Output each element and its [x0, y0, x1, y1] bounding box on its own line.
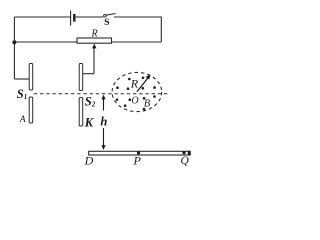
switch S	[104, 14, 116, 18]
field dot 10	[153, 95, 156, 98]
svg-text:D: D	[84, 153, 94, 167]
wire left vertical	[13, 17, 15, 79]
rheostat R box	[77, 38, 112, 43]
field dot 5	[142, 87, 145, 90]
svg-text:Q: Q	[180, 155, 189, 167]
field dot 2	[142, 77, 145, 80]
svg-text:A: A	[19, 115, 26, 125]
plate upper right	[79, 64, 83, 91]
plate lower left A	[29, 97, 33, 123]
field region dashed circle	[112, 72, 162, 111]
screen bar	[89, 151, 191, 155]
svg-text:R: R	[130, 77, 139, 91]
plate upper left	[29, 64, 33, 91]
field dot 6	[153, 86, 156, 89]
point P dot	[137, 151, 140, 154]
distance h arrow lower	[101, 128, 105, 150]
distance h arrow upper	[101, 95, 105, 111]
svg-text:O: O	[131, 96, 138, 107]
field dot 8	[129, 98, 132, 101]
field dot 12	[143, 108, 146, 111]
wire switch to top right corner and down	[114, 17, 161, 42]
wire wiper to plate	[81, 73, 94, 75]
rheostat wiper arrow	[92, 44, 96, 74]
svg-text:S2: S2	[85, 95, 96, 109]
radius arrow	[137, 74, 151, 91]
screen end cap	[188, 151, 191, 155]
wire right to rheostat	[112, 41, 162, 43]
field dot 11	[124, 104, 127, 107]
field dot 3	[116, 86, 119, 89]
field dot 7	[116, 99, 119, 102]
svg-text:K: K	[84, 116, 95, 130]
svg-text:P: P	[133, 154, 142, 168]
beam axis dashed line	[34, 93, 168, 95]
wire battery to switch	[76, 16, 104, 18]
field dot 4	[127, 87, 130, 90]
wire rheostat to junction	[14, 41, 77, 43]
battery cell	[71, 11, 75, 26]
point Q dot	[182, 151, 185, 154]
plate lower right K	[79, 98, 83, 127]
svg-text:B: B	[144, 99, 151, 110]
svg-text:R: R	[91, 28, 98, 39]
wire to plate A1	[14, 78, 29, 80]
wire top left horizontal	[14, 16, 70, 18]
svg-text:S1: S1	[17, 87, 27, 101]
svg-text:h: h	[100, 114, 107, 128]
field dot 9	[143, 97, 146, 100]
field dot 1	[128, 78, 131, 81]
svg-text:S: S	[104, 17, 109, 28]
junction dot	[12, 40, 16, 44]
